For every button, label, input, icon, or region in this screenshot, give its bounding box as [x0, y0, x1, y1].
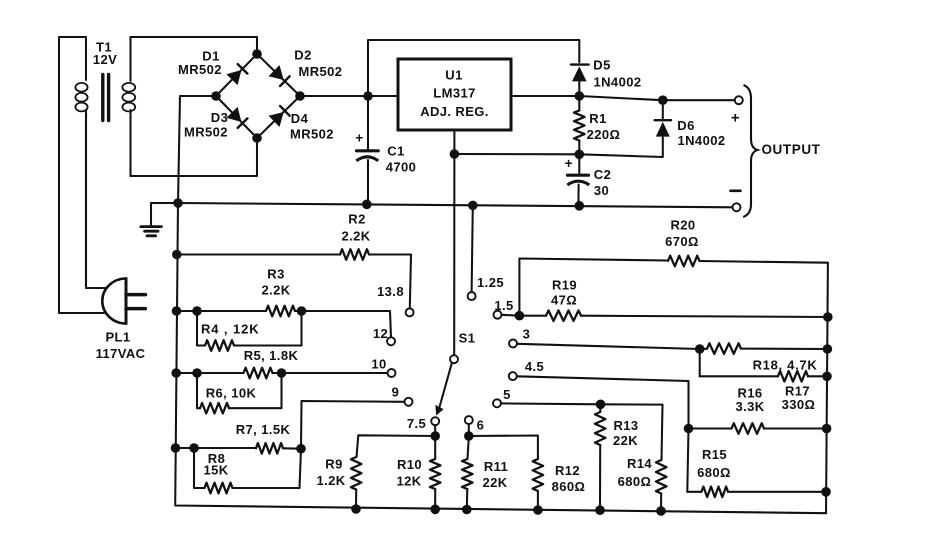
diode D5 1N4002: [571, 57, 641, 96]
svg-text:LM317: LM317: [433, 85, 475, 100]
resistor R15 680&#937;: [687, 447, 826, 497]
node: left bus / R2 junction: [172, 250, 182, 260]
wire: bridge edge left-bottom: [216, 96, 257, 138]
wire: position-3 tap lead: [517, 344, 700, 349]
svg-text:R19: R19: [552, 277, 577, 292]
svg-text:3: 3: [523, 326, 531, 341]
node: R3 right / R4 junction: [297, 306, 307, 316]
node: R15 / right bus junction: [821, 487, 831, 497]
node: left bus / R5 junction: [171, 368, 181, 378]
svg-text:R14: R14: [627, 456, 652, 471]
svg-text:R9: R9: [325, 456, 342, 471]
resistor R7 1.5K: [176, 422, 302, 454]
svg-text:330Ω: 330Ω: [782, 397, 816, 412]
resistor R13 22K: [595, 404, 639, 510]
svg-text:220Ω: 220Ω: [587, 127, 621, 142]
node: R11 / bottom bus junction: [462, 505, 472, 515]
svg-text:R13: R13: [613, 418, 638, 433]
node: 7.5 tap junction: [430, 431, 440, 441]
svg-text:D4: D4: [291, 111, 309, 126]
node: bridge DC+ right: [295, 91, 305, 101]
terminal: switch position 6: [465, 416, 485, 432]
wire: left bus: [175, 203, 826, 513]
resistor R18 4.7K: [700, 343, 828, 372]
node: 6 tap junction: [464, 431, 474, 441]
svg-text:1N4002: 1N4002: [594, 74, 642, 89]
svg-text:12K: 12K: [396, 473, 421, 488]
wire: 6 contact stub: [468, 424, 470, 436]
label T1 12V: [93, 39, 117, 67]
resistor R14 680&#937;: [618, 405, 667, 511]
diode D6 1N4002: [655, 100, 726, 148]
svg-text:22K: 22K: [482, 475, 507, 490]
svg-text:C1: C1: [387, 143, 404, 158]
terminal: switch position 1.5: [494, 298, 514, 318]
transformer T1 primary winding: [75, 83, 87, 288]
svg-text:R4 , 12K: R4 , 12K: [201, 321, 260, 336]
node: R7 left / R8 junction: [189, 443, 199, 453]
resistor R8 15K: [194, 448, 301, 493]
node: R18 / right bus junction: [823, 344, 833, 354]
resistor R3 2.2K: [177, 266, 392, 337]
svg-text:R17: R17: [785, 383, 810, 398]
wire: position-9 tap: [301, 401, 405, 449]
svg-text:OUTPUT: OUTPUT: [761, 142, 820, 157]
node: 1.5 / R19 / R20 junction: [515, 311, 525, 321]
node: R5 left / R6 junction: [192, 368, 202, 378]
svg-text:10: 10: [371, 356, 386, 371]
resistor R5 1.8K: [176, 348, 387, 378]
terminal: switch position 12: [373, 326, 395, 345]
node: ground junction: [173, 198, 183, 208]
svg-text:4.5: 4.5: [525, 359, 544, 374]
svg-text:2.2K: 2.2K: [261, 282, 290, 297]
resistor R16 3.3K: [689, 385, 827, 433]
terminal: switch position 1.25: [468, 275, 504, 300]
svg-text:MR502: MR502: [290, 126, 334, 141]
node: R14 / bottom bus junction: [656, 506, 666, 516]
wire: R16 node down to R15: [687, 429, 688, 492]
svg-text:3.3K: 3.3K: [735, 399, 764, 414]
svg-text:13.8: 13.8: [377, 284, 404, 299]
node: bridge AC top: [252, 49, 262, 59]
node: R17 / right bus junction: [822, 372, 832, 382]
svg-text:47Ω: 47Ω: [551, 292, 577, 307]
wire: R18 node down to R17: [699, 349, 701, 376]
svg-text:C2: C2: [594, 167, 611, 182]
svg-text:+: +: [565, 156, 573, 171]
svg-text:12: 12: [373, 326, 388, 341]
svg-text:S1: S1: [459, 330, 476, 345]
wire: AC primary left lead: [59, 37, 104, 313]
wire: bridge DC+ to U1 IN: [300, 95, 398, 97]
terminal: output +: [731, 96, 743, 126]
wire: bridge edge left-top: [216, 54, 257, 96]
ground symbol: [141, 203, 178, 236]
wire: secondary bottom to bridge AC bottom: [131, 139, 258, 176]
resistor R4 12K: [197, 311, 302, 351]
svg-text:R3: R3: [267, 266, 284, 281]
resistor R9 1.2K: [316, 435, 435, 509]
node: 5 / R13 junction: [596, 400, 606, 410]
node: bridge DC- left: [211, 91, 221, 101]
svg-text:MR502: MR502: [184, 124, 228, 139]
svg-text:R10: R10: [397, 457, 422, 472]
node: R10 / bottom bus junction: [430, 505, 440, 515]
wire: ADJ rail: [454, 137, 662, 157]
svg-text:+: +: [355, 131, 363, 146]
wire: bridge edge top-right: [257, 54, 300, 96]
node: R5 right / R6 junction: [277, 368, 287, 378]
svg-text:PL1: PL1: [105, 329, 130, 344]
wire: bridge DC- to ground bus: [178, 96, 216, 203]
resistor R6 10K: [197, 373, 282, 414]
svg-text:9: 9: [392, 384, 400, 399]
transformer T1 secondary winding: [122, 37, 135, 176]
resistor R12 860&#937;: [469, 436, 586, 511]
svg-text:860Ω: 860Ω: [552, 479, 586, 494]
svg-text:22K: 22K: [613, 433, 638, 448]
terminal: output -: [731, 191, 741, 212]
svg-text:MR502: MR502: [178, 62, 222, 77]
node: R3 left / R4 junction: [192, 306, 202, 316]
terminal: switch position 9: [392, 384, 413, 405]
svg-text:R11: R11: [484, 459, 508, 474]
svg-text:670Ω: 670Ω: [665, 234, 699, 249]
svg-text:D2: D2: [294, 47, 311, 62]
node: bridge AC bottom: [252, 133, 262, 143]
wire: primary bottom lead to plug: [86, 110, 107, 288]
node: C1 bottom junction: [362, 200, 372, 210]
capacitor C2 30: [565, 154, 612, 206]
svg-text:D6: D6: [677, 118, 694, 133]
node: C2 bottom junction: [575, 201, 585, 211]
capacitor C1 4700: [355, 96, 416, 204]
node: R1 bottom / ADJ junction: [575, 150, 585, 160]
svg-text:+: +: [731, 109, 740, 126]
node: 4.5 / R16 junction: [684, 424, 694, 434]
svg-text:7.5: 7.5: [407, 416, 426, 431]
node: C1 top junction: [363, 91, 373, 101]
node: ADJ pin junction: [450, 149, 460, 159]
svg-text:1N4002: 1N4002: [678, 133, 726, 148]
node: D6 cathode junction: [658, 95, 668, 105]
svg-text:R6, 10K: R6, 10K: [206, 385, 257, 400]
terminal: switch position 5: [493, 387, 511, 407]
svg-text:R7, 1.5K: R7, 1.5K: [236, 422, 291, 437]
svg-text:D3: D3: [211, 110, 228, 125]
output brace and label: [743, 85, 820, 217]
wire: 1.25 tap to ground bus: [472, 205, 473, 292]
wire: U1 ADJ pin down to S1 pole: [453, 130, 455, 355]
node: R9 / bottom bus junction: [351, 504, 361, 514]
diode D3 MR502: [184, 107, 247, 140]
svg-text:U1: U1: [445, 67, 462, 82]
svg-text:5: 5: [503, 387, 511, 402]
terminal: switch position 7.5: [407, 416, 439, 431]
terminal: switch position 10: [371, 356, 395, 377]
resistor R11 22K: [462, 436, 508, 510]
svg-text:D5: D5: [593, 57, 610, 72]
wire: bridge edge bottom-right: [257, 96, 300, 138]
svg-text:680Ω: 680Ω: [618, 474, 652, 489]
svg-text:15K: 15K: [203, 462, 228, 477]
op-amp U1 LM317 ADJ. REG.: [398, 59, 511, 130]
svg-text:R5, 1.8K: R5, 1.8K: [244, 348, 299, 363]
svg-text:MR502: MR502: [299, 64, 343, 79]
wire: secondary top to bridge AC top: [131, 37, 258, 54]
svg-text:1.25: 1.25: [477, 275, 504, 290]
resistor R19 47&#937;: [519, 277, 827, 321]
switch S1 pole: [450, 330, 475, 363]
terminal: switch position 3: [509, 326, 530, 347]
resistor R20 670&#937;: [519, 217, 828, 315]
node: R12 / bottom bus junction: [533, 505, 543, 515]
wire: 1.5 tap lead: [502, 314, 520, 317]
node: R13 / bottom bus junction: [595, 505, 605, 515]
resistor R1 220&#937;: [574, 96, 620, 154]
svg-text:R18, 4.7K: R18, 4.7K: [753, 357, 818, 372]
svg-text:117VAC: 117VAC: [96, 346, 146, 361]
svg-text:30: 30: [594, 183, 609, 198]
node: R19 / right bus junction: [823, 312, 833, 322]
diode D1 MR502: [178, 48, 247, 85]
resistor R10 12K: [396, 436, 440, 509]
wire: position-4.5 tap lead: [517, 376, 689, 428]
svg-text:680Ω: 680Ω: [697, 465, 731, 480]
node: left bus / R7 junction: [171, 443, 181, 453]
wire: 7.5 contact stub: [434, 425, 436, 436]
svg-text:R15: R15: [702, 447, 727, 462]
diode D4 MR502: [269, 106, 334, 141]
transformer T1 core: [103, 75, 109, 121]
terminal: switch position 4.5: [509, 359, 544, 380]
svg-text:4700: 4700: [386, 159, 417, 174]
svg-text:2.2K: 2.2K: [341, 228, 370, 243]
svg-text:R1: R1: [589, 111, 606, 126]
diode D2 MR502: [269, 47, 343, 86]
node: R7 right / R8 junction: [296, 444, 306, 454]
wire: bypass top (input to D5 anode): [368, 40, 579, 96]
svg-text:6: 6: [477, 417, 485, 432]
wire: position-5 tap lead: [501, 403, 663, 404]
resistor R17 330&#937;: [700, 371, 827, 412]
svg-text:R20: R20: [670, 217, 695, 232]
svg-text:1.2K: 1.2K: [316, 473, 345, 488]
svg-text:ADJ. REG.: ADJ. REG.: [420, 104, 489, 119]
resistor R2 2.2K: [177, 211, 411, 308]
wire: right bus: [826, 263, 828, 513]
svg-text:12V: 12V: [93, 52, 117, 67]
node: 3 / R18 / R17 junction: [695, 344, 705, 354]
node: D5 cathode junction: [575, 91, 585, 101]
wire: ground bus: [178, 203, 734, 207]
node: 1.25 / ground bus junction: [468, 201, 478, 211]
wire: U1 OUT to output+ rail: [511, 96, 735, 100]
terminal: switch position 13.8: [377, 284, 414, 316]
node: left bus / R3 junction: [172, 306, 182, 316]
plug PL1 117VAC: [96, 279, 146, 361]
svg-text:R2: R2: [348, 211, 365, 226]
switch S1 arm: [435, 363, 452, 415]
node: R16 / right bus junction: [822, 424, 832, 434]
svg-text:R12: R12: [555, 463, 580, 478]
svg-text:1.5: 1.5: [494, 298, 513, 313]
